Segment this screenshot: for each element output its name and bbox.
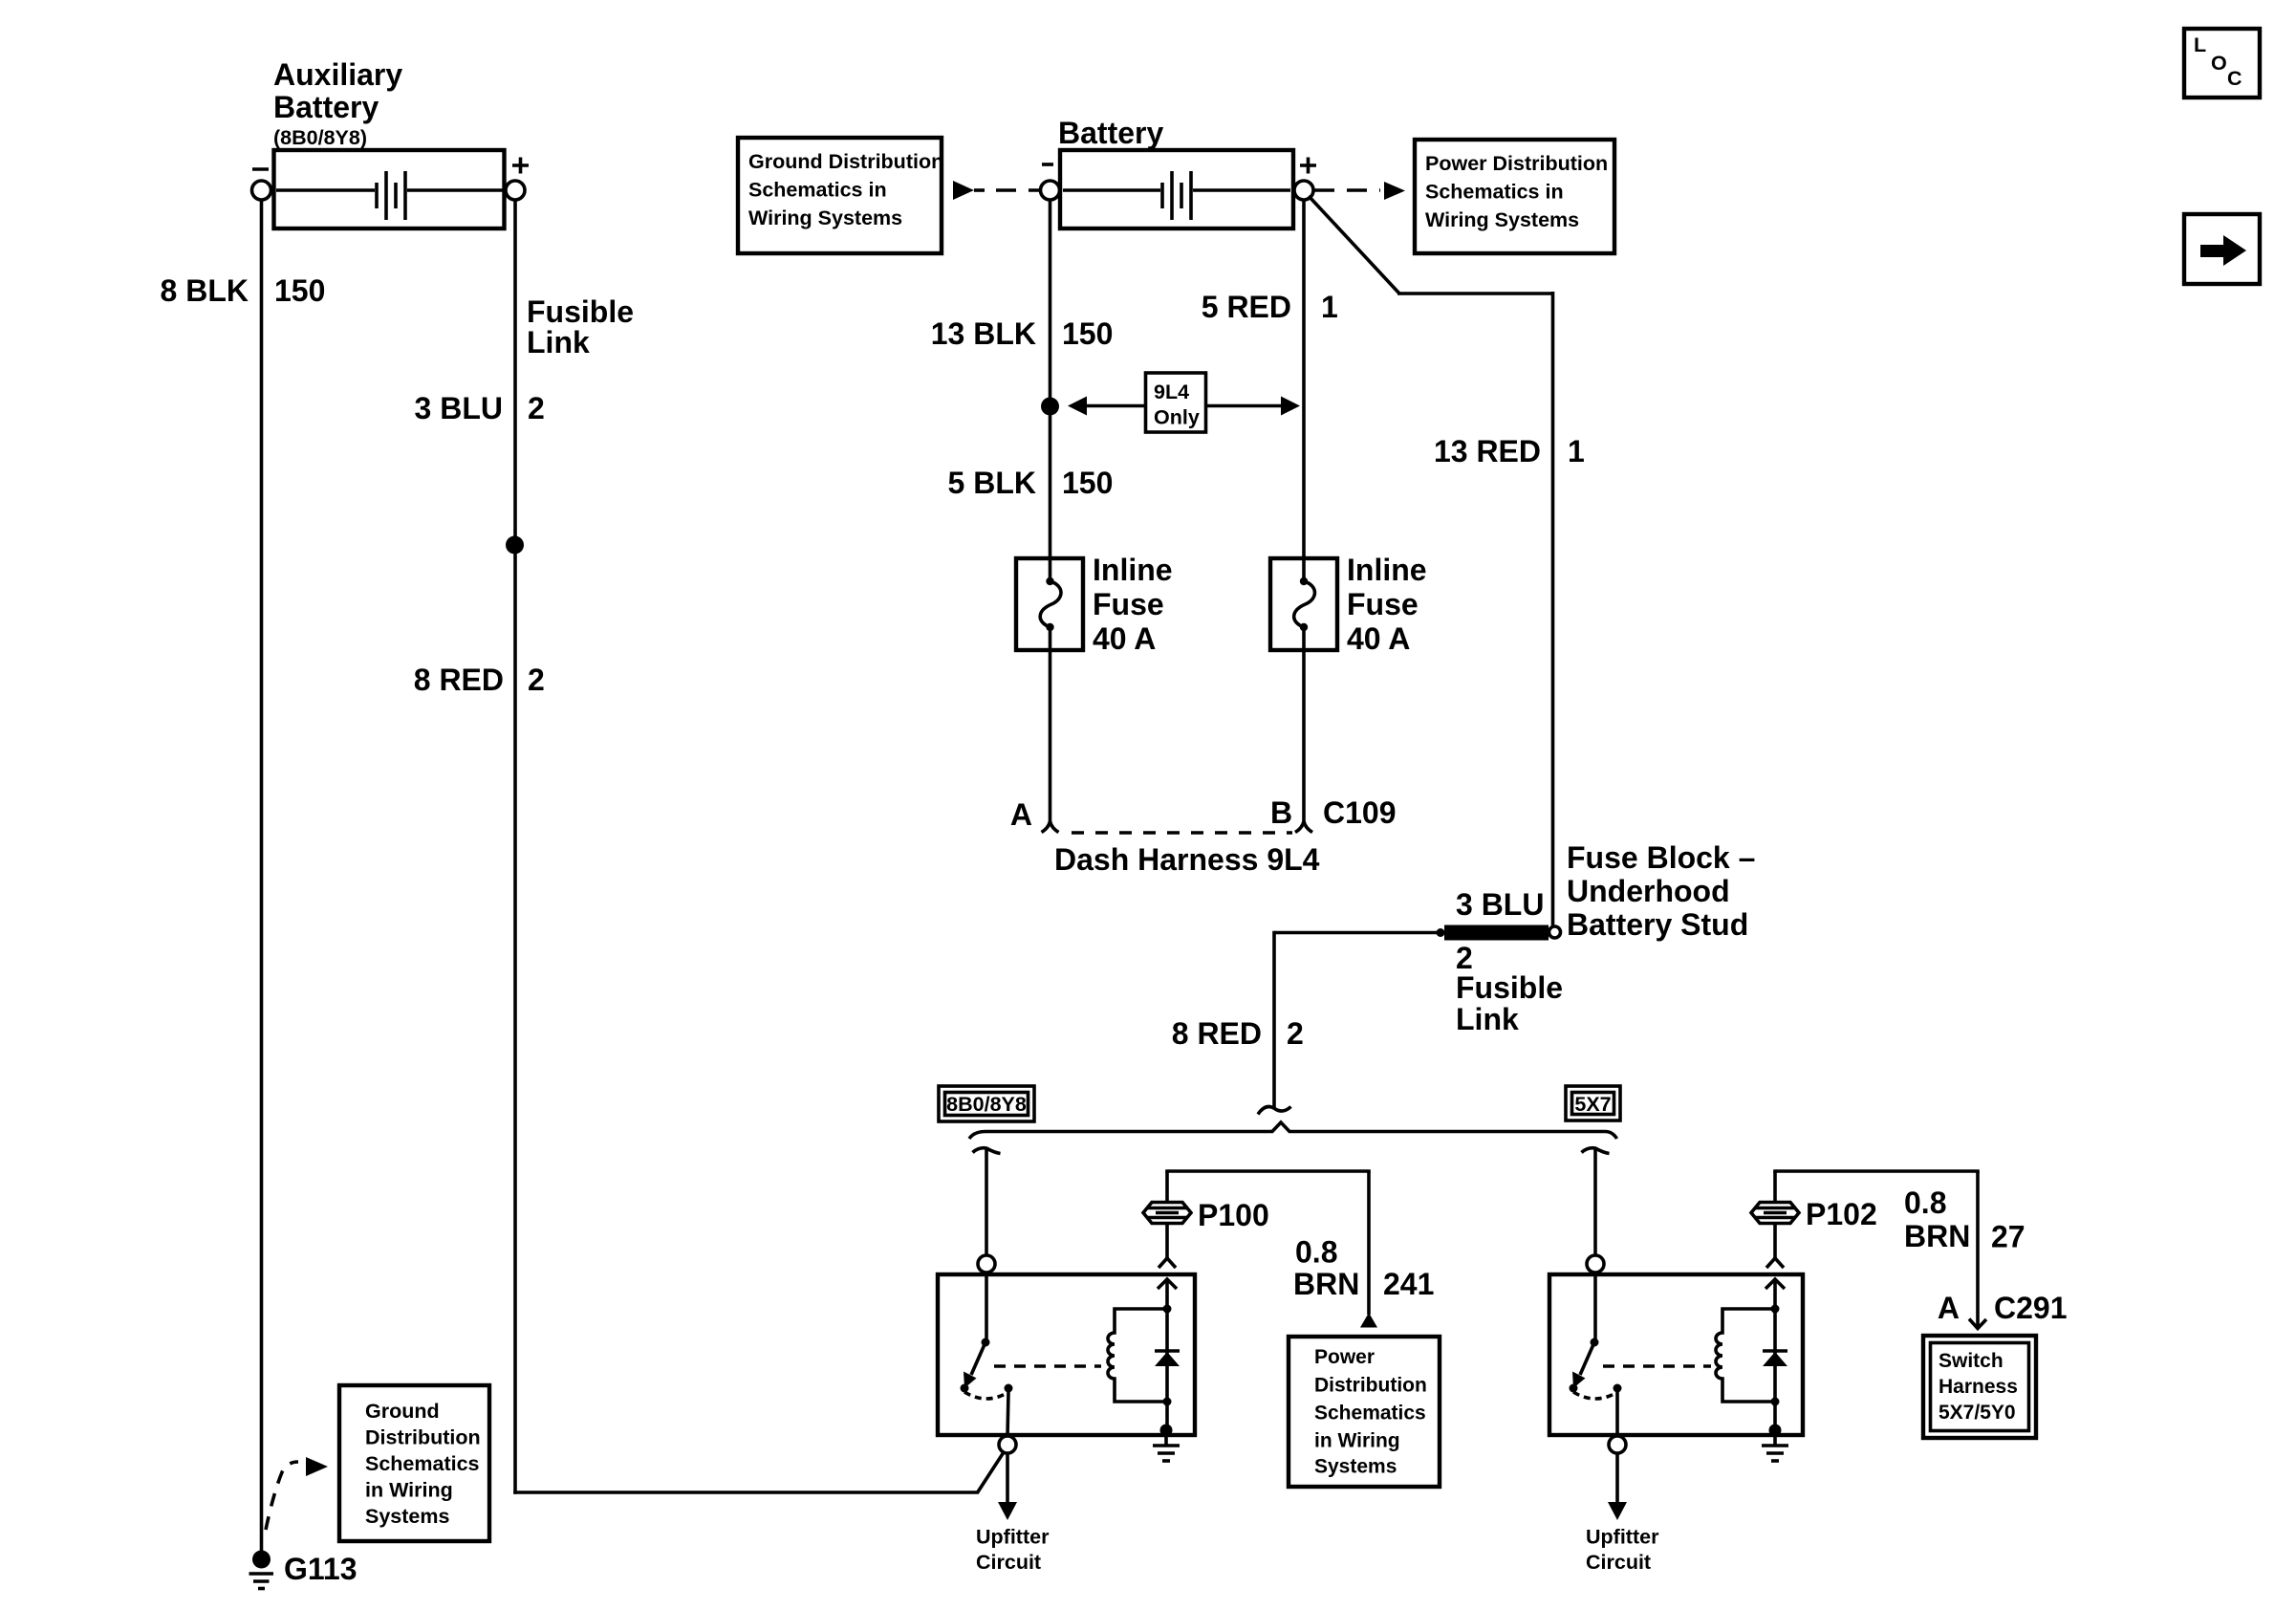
ground G113: [249, 1551, 357, 1589]
svg-text:8 RED: 8 RED: [414, 663, 504, 697]
right branch break symbol: [1582, 1148, 1610, 1154]
fuse block underhood battery stud label: [1567, 840, 1755, 942]
switch harness box: [1923, 1336, 2036, 1438]
svg-text:C291: C291: [1994, 1291, 2068, 1325]
svg-text:Schematics in: Schematics in: [1425, 181, 1564, 204]
svg-text:Battery Stud: Battery Stud: [1567, 907, 1748, 942]
auxiliary battery label: [273, 57, 402, 149]
wire 13 RED 1 (battery positive to fuse block stud): [1309, 196, 1585, 925]
inline fuse 40 A (right): [1270, 553, 1427, 656]
wire from right fuse to connector B: [1302, 650, 1306, 823]
junction on negative wire: [1041, 398, 1059, 416]
svg-text:Power: Power: [1314, 1346, 1375, 1368]
svg-text:1: 1: [1321, 290, 1338, 324]
svg-text:Battery: Battery: [273, 90, 379, 124]
svg-text:13 BLK: 13 BLK: [931, 316, 1036, 351]
svg-text:Dash Harness 9L4: Dash Harness 9L4: [1054, 842, 1320, 877]
svg-text:in Wiring: in Wiring: [1314, 1430, 1400, 1452]
svg-text:Distribution: Distribution: [1314, 1375, 1427, 1397]
svg-text:3 BLU: 3 BLU: [1456, 887, 1544, 922]
connector C109 pin A: [1010, 797, 1059, 833]
svg-text:Fusible: Fusible: [527, 294, 634, 329]
svg-text:2: 2: [528, 663, 545, 697]
left relay (upfitter relay 1): [938, 1258, 1195, 1436]
connector chevrons: [1766, 1258, 1784, 1268]
svg-text:27: 27: [1991, 1220, 2025, 1254]
branch brace: [969, 1122, 1617, 1139]
svg-text:C109: C109: [1323, 795, 1397, 830]
svg-text:Fuse: Fuse: [1347, 587, 1419, 621]
dashed connector line A to B: [1072, 831, 1292, 835]
wire 13 BLK 150 / 5 BLK 150 (battery negative down to left fuse): [931, 200, 1114, 558]
splice pack P102: [1751, 1171, 1877, 1258]
right relay (upfitter relay 2): [1549, 1258, 1803, 1436]
svg-text:Circuit: Circuit: [976, 1551, 1041, 1574]
svg-text:Wiring Systems: Wiring Systems: [1425, 208, 1579, 231]
clamp diode: [1155, 1349, 1180, 1353]
svg-text:150: 150: [274, 273, 325, 308]
svg-text:Upfitter: Upfitter: [976, 1526, 1050, 1549]
ground distribution schematics box (bottom left): [339, 1385, 489, 1541]
svg-text:(8B0/8Y8): (8B0/8Y8): [273, 126, 367, 149]
svg-text:C: C: [2227, 67, 2242, 90]
svg-text:Schematics in: Schematics in: [748, 179, 887, 202]
svg-text:Battery: Battery: [1058, 116, 1163, 150]
aux battery negative terminal: [252, 169, 271, 200]
svg-text:241: 241: [1383, 1267, 1434, 1301]
svg-text:O: O: [2211, 52, 2227, 75]
battery positive terminal: [1294, 158, 1316, 201]
relay coil: [1716, 1309, 1775, 1402]
svg-text:8 RED: 8 RED: [1172, 1016, 1262, 1051]
svg-text:Auxiliary: Auxiliary: [273, 57, 402, 92]
svg-text:Inline: Inline: [1093, 553, 1173, 587]
arrow legend box: [2184, 214, 2260, 284]
svg-text:2: 2: [1287, 1016, 1304, 1051]
wire 8 RED 2 label (left): [414, 663, 545, 697]
battery negative terminal: [1041, 164, 1060, 200]
dashed arrow from ground distribution box to battery negative: [953, 181, 1039, 200]
wire 8 RED 2 (fusible link to brace): [1172, 931, 1438, 1107]
auxiliary battery: [274, 150, 505, 228]
LOC legend box: [2184, 29, 2260, 98]
svg-text:2: 2: [528, 391, 545, 425]
dashed reference arrow to ground distribution box: [266, 1457, 328, 1530]
left branch break symbol: [973, 1148, 1001, 1154]
svg-text:Power Distribution: Power Distribution: [1425, 152, 1608, 175]
svg-text:3 BLU: 3 BLU: [415, 391, 503, 425]
svg-text:A: A: [1010, 797, 1032, 832]
svg-text:Distribution: Distribution: [365, 1426, 481, 1449]
connector C109 pin B: [1270, 795, 1397, 833]
svg-text:13 RED: 13 RED: [1434, 434, 1541, 468]
wire fusible link / 3 BLU 2 (aux battery positive): [415, 200, 634, 1494]
svg-text:40 A: 40 A: [1093, 621, 1156, 656]
dashed arrow from battery positive to power distribution box: [1314, 182, 1405, 200]
svg-text:Schematics: Schematics: [365, 1452, 480, 1475]
ground distribution schematics box (top): [738, 138, 943, 253]
wire 0.8 BRN 27 to switch harness: [1773, 1171, 2025, 1329]
wire from left fuse to connector A: [1049, 650, 1052, 823]
connector chevrons: [1159, 1258, 1176, 1268]
svg-text:P102: P102: [1806, 1197, 1877, 1231]
svg-text:Fuse Block –: Fuse Block –: [1567, 840, 1755, 875]
svg-text:Harness: Harness: [1939, 1376, 2018, 1398]
svg-text:Switch: Switch: [1939, 1350, 2004, 1372]
svg-text:Only: Only: [1154, 406, 1200, 429]
9L4 Only box with arrows: [1068, 373, 1300, 432]
inline fuse 40 A (left): [1016, 553, 1173, 656]
tag 8B0/8Y8: [939, 1086, 1034, 1121]
wire 0.8 BRN 241 to power distribution: [1165, 1171, 1434, 1328]
svg-text:BRN: BRN: [1293, 1267, 1359, 1301]
wire 8 BLK 150 (aux battery negative to G113): [161, 200, 326, 1551]
wire from aux positive to left relay output: [513, 1452, 1004, 1493]
wire break symbol above brace: [1258, 1107, 1291, 1115]
connector C291 pin A: [1938, 1291, 2068, 1325]
svg-text:Ground: Ground: [365, 1400, 440, 1423]
svg-text:Inline: Inline: [1347, 553, 1427, 587]
splice pack P100: [1143, 1171, 1269, 1258]
svg-text:0.8: 0.8: [1295, 1235, 1337, 1270]
svg-text:A: A: [1938, 1291, 1960, 1325]
svg-text:1: 1: [1568, 434, 1585, 468]
right relay ground: [1762, 1425, 1788, 1462]
svg-text:BRN: BRN: [1904, 1219, 1970, 1253]
power distribution schematics box (top): [1415, 140, 1614, 253]
svg-text:150: 150: [1062, 316, 1113, 351]
svg-text:L: L: [2194, 33, 2206, 56]
svg-text:Underhood: Underhood: [1567, 874, 1730, 908]
svg-text:Link: Link: [527, 325, 590, 359]
svg-text:Wiring Systems: Wiring Systems: [748, 207, 902, 229]
right relay output circle: [1609, 1436, 1626, 1453]
svg-text:Systems: Systems: [365, 1505, 449, 1528]
svg-text:Upfitter: Upfitter: [1586, 1526, 1659, 1549]
svg-text:Link: Link: [1456, 1002, 1519, 1036]
svg-text:Circuit: Circuit: [1586, 1551, 1651, 1574]
svg-text:8B0/8Y8: 8B0/8Y8: [946, 1093, 1027, 1116]
battery: [1060, 150, 1293, 228]
wire 5 RED 1 (battery positive down to right fuse): [1202, 200, 1338, 558]
left relay output circle: [999, 1436, 1016, 1453]
svg-text:0.8: 0.8: [1904, 1186, 1946, 1220]
svg-text:Ground Distribution: Ground Distribution: [748, 150, 943, 173]
svg-text:G113: G113: [284, 1552, 357, 1586]
svg-text:40 A: 40 A: [1347, 621, 1410, 656]
left relay ground: [1153, 1425, 1180, 1462]
svg-text:5X7/5Y0: 5X7/5Y0: [1939, 1402, 2016, 1424]
svg-text:Fuse: Fuse: [1093, 587, 1164, 621]
svg-text:5X7: 5X7: [1574, 1093, 1611, 1116]
aux battery positive terminal: [506, 158, 529, 201]
left relay input circle: [978, 1255, 995, 1273]
svg-text:Fusible: Fusible: [1456, 970, 1563, 1005]
svg-text:150: 150: [1062, 466, 1113, 500]
left branch wire: [985, 1148, 988, 1255]
power distribution schematics box (bottom): [1289, 1337, 1440, 1487]
svg-text:in Wiring: in Wiring: [365, 1479, 453, 1502]
svg-text:9L4: 9L4: [1154, 381, 1189, 403]
clamp diode: [1763, 1349, 1787, 1353]
right branch wire: [1593, 1148, 1597, 1255]
svg-text:Systems: Systems: [1314, 1456, 1397, 1478]
left upfitter circuit arrow: [976, 1453, 1050, 1574]
svg-text:B: B: [1270, 795, 1292, 830]
right relay input circle: [1587, 1255, 1604, 1273]
right upfitter circuit arrow: [1586, 1453, 1659, 1574]
svg-text:5 BLK: 5 BLK: [948, 466, 1036, 500]
svg-text:8 BLK: 8 BLK: [161, 273, 249, 308]
svg-text:Schematics: Schematics: [1314, 1403, 1426, 1425]
fusible link element (3 BLU 2): [1437, 887, 1564, 1036]
svg-text:5 RED: 5 RED: [1202, 290, 1291, 324]
splice junction on aux positive wire: [506, 536, 524, 555]
tag 5X7: [1566, 1086, 1620, 1120]
svg-text:P100: P100: [1198, 1198, 1269, 1232]
relay coil: [1108, 1309, 1167, 1402]
